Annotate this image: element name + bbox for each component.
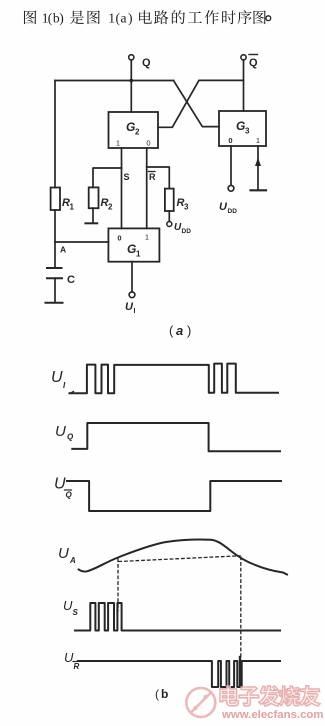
- ground G3: [251, 189, 267, 191]
- waveform U_I: [70, 392, 74, 394]
- wire Qbar vertical: [243, 60, 245, 111]
- wire G3 pin0 to UDD terminal: [230, 146, 232, 185]
- capacitor C: [47, 267, 62, 269]
- svg-text:2: 2: [135, 128, 140, 137]
- svg-text:1: 1: [145, 233, 149, 242]
- wire G1 output to UI terminal: [131, 262, 133, 292]
- svg-text:): ): [128, 11, 133, 27]
- svg-text:3: 3: [184, 203, 189, 212]
- wire to R2: [93, 168, 122, 187]
- svg-text:G: G: [126, 120, 135, 134]
- waveform U_Rbar: [78, 661, 280, 687]
- wire node A to capacitor: [54, 242, 56, 268]
- wire S line G2 to G1: [121, 148, 123, 228]
- svg-text:U: U: [64, 650, 74, 665]
- svg-text:0: 0: [146, 139, 150, 148]
- svg-text:www.elecfans.com: www.elecfans.com: [221, 709, 324, 721]
- terminal Q: [129, 55, 134, 60]
- svg-text:U: U: [51, 369, 63, 386]
- svg-text:2: 2: [108, 203, 113, 212]
- svg-text:3: 3: [245, 127, 250, 136]
- svg-text:1: 1: [70, 203, 75, 212]
- wire cross-couple Q line to G3 input: [174, 81, 220, 127]
- svg-text:G: G: [236, 119, 245, 133]
- svg-text:b: b: [161, 687, 168, 701]
- ground capacitor: [46, 302, 63, 304]
- svg-text:U: U: [63, 598, 73, 613]
- svg-text:DD: DD: [228, 208, 238, 215]
- svg-text:A: A: [69, 556, 76, 565]
- resistor R1: [51, 188, 60, 211]
- wire R2 to ground: [92, 208, 94, 222]
- svg-text:I: I: [134, 308, 136, 315]
- svg-text:R: R: [74, 662, 80, 671]
- waveform U_S: [75, 603, 280, 631]
- svg-text:Q: Q: [142, 57, 151, 69]
- gate G2: [109, 112, 159, 148]
- watermark logo circle: [186, 688, 215, 717]
- title text 图1(b)是图1(a)电路的工作时序图。: [24, 11, 36, 25]
- watermark text 电子发烧友: [220, 686, 239, 707]
- svg-text:1: 1: [256, 136, 260, 145]
- waveform U_Q: [72, 423, 280, 451]
- svg-text:(: (: [155, 687, 159, 701]
- svg-text:(: (: [169, 323, 174, 338]
- svg-text:Q: Q: [249, 57, 258, 69]
- svg-text:): ): [59, 11, 64, 27]
- svg-text:U: U: [58, 545, 69, 562]
- wire node A to G1: [55, 241, 108, 243]
- wire to R3: [147, 167, 170, 189]
- dashed vertical right t2: [240, 557, 242, 658]
- svg-text:C: C: [67, 274, 75, 286]
- resistor R2: [89, 187, 99, 208]
- ground R2: [85, 222, 97, 224]
- svg-text:U: U: [55, 423, 66, 440]
- svg-text:): ): [187, 323, 191, 338]
- svg-text:1: 1: [108, 11, 115, 26]
- terminal Qbar: [241, 55, 246, 60]
- node junction Q: [129, 79, 133, 83]
- wire top feedback from Q to left rail: [55, 80, 174, 82]
- wire Rbar line G2 to G1: [146, 148, 148, 228]
- svg-text:Q: Q: [66, 491, 73, 500]
- waveform U_Qbar: [67, 481, 281, 511]
- svg-text:a: a: [121, 11, 127, 26]
- svg-text:1: 1: [136, 250, 141, 259]
- resistor R3: [165, 189, 174, 211]
- wire G3 pin1 to ground with arrow: [257, 146, 259, 190]
- svg-text:1: 1: [116, 139, 120, 148]
- svg-text:S: S: [73, 608, 79, 617]
- wire capacitor to ground: [54, 278, 56, 302]
- gate G1: [108, 228, 159, 261]
- svg-text:R: R: [149, 172, 156, 182]
- gate G3: [219, 111, 266, 146]
- svg-text:a: a: [176, 323, 183, 338]
- svg-text:S: S: [124, 172, 130, 182]
- wire left rail down to R1: [54, 81, 56, 188]
- svg-text:A: A: [60, 245, 66, 255]
- wire cross-couple G2 output to Qbar line: [158, 80, 244, 127]
- wire Q vertical: [130, 60, 132, 112]
- dashed tail solid at t2: [239, 657, 241, 686]
- svg-text:Q: Q: [67, 433, 74, 442]
- dashed vertical left t1: [117, 559, 119, 611]
- svg-text:0: 0: [228, 136, 232, 145]
- svg-text:DD: DD: [182, 228, 192, 235]
- wire R1 to node A: [54, 210, 56, 242]
- dashed horizontal level line: [119, 556, 240, 562]
- svg-text:G: G: [127, 242, 136, 256]
- svg-text:0: 0: [117, 234, 121, 243]
- wire R3 to UDD terminal: [168, 211, 170, 221]
- waveform U_A curve: [79, 540, 287, 575]
